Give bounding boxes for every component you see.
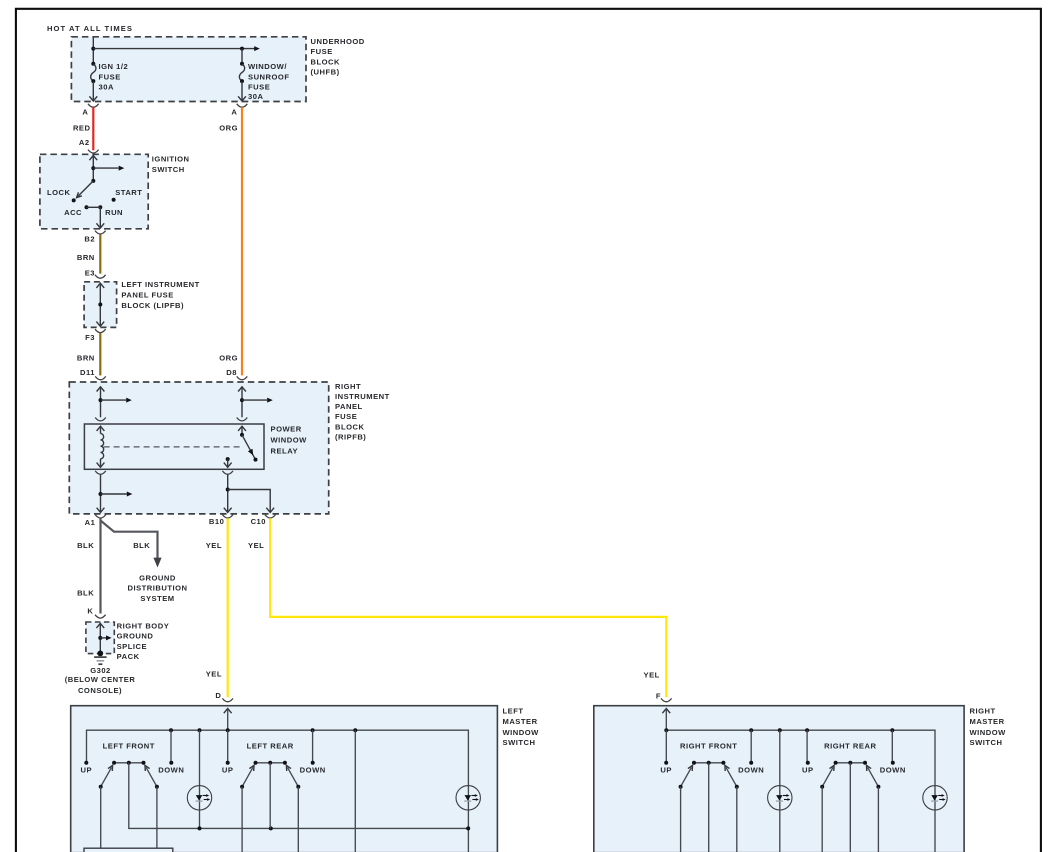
node bus right rear down tap: [890, 728, 894, 732]
svg-text:FUSE: FUSE: [99, 73, 121, 82]
wire RIPFB right branch arrow: [242, 399, 267, 401]
svg-text:WINDOW/: WINDOW/: [248, 62, 287, 71]
node bus D junction: [226, 728, 230, 732]
wire left front down drop: [170, 730, 172, 763]
svg-text:UP: UP: [660, 766, 672, 775]
svg-text:HOT AT ALL TIMES: HOT AT ALL TIMES: [47, 24, 133, 33]
left motor connector box: [84, 848, 173, 852]
window switch LEFT FRONT contacts: [114, 762, 143, 764]
svg-text:SWITCH: SWITCH: [152, 165, 185, 174]
contact ACC: [85, 205, 89, 209]
svg-text:GROUND: GROUND: [139, 573, 176, 582]
wire ACC to RUN: [87, 206, 101, 208]
wire F input entry: [662, 709, 670, 714]
svg-text:BLOCK (LIPFB): BLOCK (LIPFB): [121, 301, 184, 310]
node switched output junction: [226, 488, 230, 492]
svg-text:(RIPFB): (RIPFB): [335, 432, 366, 441]
connector terminal A right: [237, 104, 248, 107]
svg-text:SYSTEM: SYSTEM: [140, 594, 174, 603]
svg-text:30A: 30A: [99, 82, 114, 91]
connector terminal A1: [95, 515, 106, 518]
wire YEL C10 to F: [270, 518, 666, 697]
svg-text:LEFT REAR: LEFT REAR: [247, 742, 294, 751]
wire UHFB feed vertical: [92, 37, 94, 64]
relay contact to B10: [226, 457, 230, 461]
svg-text:DOWN: DOWN: [300, 766, 326, 775]
node bus output tap: [353, 728, 357, 732]
wire right rear up drop: [806, 730, 808, 763]
svg-text:SPLICE: SPLICE: [117, 642, 147, 651]
window switch RIGHT REAR UP arm: [822, 767, 833, 786]
svg-text:RUN: RUN: [105, 208, 123, 217]
svg-text:LEFT FRONT: LEFT FRONT: [103, 742, 155, 751]
wire left rear up pivot down: [241, 787, 243, 852]
svg-text:YEL: YEL: [206, 669, 222, 678]
wire RUN output: [99, 207, 101, 228]
wire left switch supply bus: [87, 730, 469, 852]
window switch RIGHT FRONT contacts: [694, 762, 723, 764]
connector arc relay coil top: [95, 418, 106, 421]
svg-text:B10: B10: [209, 517, 224, 526]
relay switch common: [238, 426, 246, 431]
svg-text:DISTRIBUTION: DISTRIBUTION: [128, 584, 188, 593]
underhood fuse block UHFB box: [71, 37, 306, 102]
svg-text:INSTRUMENT: INSTRUMENT: [335, 392, 390, 401]
node RIPFB left junction: [99, 398, 103, 402]
svg-text:PANEL: PANEL: [335, 402, 363, 411]
wire ORG fuse to RIPFB D8: [241, 107, 243, 375]
node bus left front down tap: [169, 728, 173, 732]
svg-text:WINDOW: WINDOW: [271, 435, 308, 444]
contact START: [112, 198, 116, 202]
svg-text:UP: UP: [222, 766, 234, 775]
svg-text:FUSE: FUSE: [335, 412, 357, 421]
window switch RIGHT FRONT UP arm: [681, 767, 692, 786]
svg-text:C10: C10: [251, 517, 266, 526]
svg-text:E3: E3: [85, 269, 95, 278]
svg-text:BLK: BLK: [77, 541, 94, 550]
svg-text:ORG: ORG: [219, 353, 238, 362]
svg-text:LOCK: LOCK: [47, 188, 71, 197]
node coil return junction: [99, 492, 103, 496]
wire YEL B10 to D: [227, 518, 229, 697]
connector terminal F3: [95, 329, 106, 332]
svg-text:RIGHT: RIGHT: [970, 707, 996, 716]
connector arc D8: [237, 376, 248, 379]
svg-text:MASTER: MASTER: [970, 717, 1005, 726]
node ignition rotor pivot: [91, 179, 95, 183]
wire left front common down: [129, 763, 468, 829]
svg-text:RIGHT FRONT: RIGHT FRONT: [680, 742, 737, 751]
window switch LEFT FRONT DOWN arm: [146, 767, 157, 786]
wire RIPFB switched output: [227, 474, 229, 512]
window switch LEFT REAR contacts: [256, 762, 285, 764]
svg-text:(BELOW CENTER: (BELOW CENTER: [65, 675, 136, 684]
svg-text:(UHFB): (UHFB): [311, 68, 340, 77]
node bus F junction: [664, 728, 668, 732]
wire output drop long: [354, 730, 356, 852]
right instrument panel fuse block RIPFB box: [69, 382, 328, 514]
svg-text:UP: UP: [81, 766, 93, 775]
svg-text:RIGHT REAR: RIGHT REAR: [824, 742, 876, 751]
svg-text:F: F: [656, 692, 661, 701]
connector terminal B2: [95, 231, 106, 234]
svg-text:BLK: BLK: [133, 541, 150, 550]
svg-text:RELAY: RELAY: [271, 446, 299, 455]
svg-text:BLK: BLK: [77, 589, 94, 598]
relay switch arm: [242, 435, 256, 460]
ignition rotor arm toward LOCK: [78, 181, 94, 197]
window switch LEFT REAR DOWN arm: [288, 767, 299, 786]
svg-text:A: A: [231, 108, 237, 117]
svg-text:YEL: YEL: [206, 541, 222, 550]
svg-text:WINDOW: WINDOW: [970, 728, 1007, 737]
connector arc D11: [95, 376, 106, 379]
svg-text:POWER: POWER: [271, 424, 302, 433]
svg-text:SWITCH: SWITCH: [503, 738, 536, 747]
LED illumination right switch: [768, 786, 792, 810]
node bus tap to window fuse: [240, 47, 244, 51]
svg-text:DOWN: DOWN: [738, 766, 764, 775]
svg-text:A: A: [82, 108, 88, 117]
wire BLK A1 to K: [99, 518, 101, 613]
svg-text:FUSE: FUSE: [311, 47, 333, 56]
wire ignition branch arrow: [93, 167, 118, 169]
wire led1 drop: [199, 730, 201, 828]
node lower bus left rear common: [269, 826, 273, 830]
wire branch to C10: [228, 490, 271, 513]
svg-text:YEL: YEL: [644, 671, 660, 680]
svg-text:LEFT: LEFT: [503, 707, 524, 716]
svg-text:SWITCH: SWITCH: [970, 738, 1003, 747]
node bus led1 tap: [198, 728, 202, 732]
wire RIPFB left entry: [97, 387, 105, 392]
wire ignition input: [89, 156, 97, 161]
wire BLK branch to ground distribution: [101, 521, 158, 559]
window switch LEFT FRONT UP arm: [101, 767, 112, 786]
wire left rear down drop: [312, 730, 314, 763]
ground G302: [97, 651, 103, 657]
svg-text:RIGHT BODY: RIGHT BODY: [117, 621, 170, 630]
wire right rear down pivot down: [877, 787, 879, 852]
svg-text:K: K: [87, 607, 93, 616]
wire right rear down drop: [891, 730, 893, 763]
wire coil return branch arrow: [101, 493, 127, 495]
connector arc relay switch bottom: [222, 471, 233, 474]
node bus right rear up tap: [805, 728, 809, 732]
relay coil: [97, 426, 105, 431]
node LIPFB splice: [98, 303, 102, 307]
wire right front down pivot down: [736, 787, 738, 852]
svg-text:YEL: YEL: [248, 541, 264, 550]
svg-text:A1: A1: [85, 518, 96, 527]
svg-text:D11: D11: [80, 368, 95, 377]
wire right front up drop: [665, 730, 667, 763]
window switch RIGHT FRONT DOWN arm: [726, 767, 737, 786]
svg-text:CONSOLE): CONSOLE): [78, 686, 122, 695]
contact LOCK: [72, 198, 76, 202]
wire splice branch arrow: [100, 637, 106, 639]
svg-text:ACC: ACC: [64, 208, 82, 217]
svg-text:RIGHT: RIGHT: [335, 382, 361, 391]
svg-text:START: START: [115, 188, 142, 197]
svg-text:G302: G302: [90, 666, 111, 675]
svg-text:UNDERHOOD: UNDERHOOD: [311, 37, 365, 46]
node splice junction: [98, 636, 102, 640]
svg-text:IGN 1/2: IGN 1/2: [99, 62, 129, 71]
relay actuation dashed link: [104, 446, 244, 448]
node bus left rear down tap: [311, 728, 315, 732]
node bus led3 tap: [778, 728, 782, 732]
right master window switch box: [594, 706, 964, 852]
wire splice pack internal: [96, 623, 104, 628]
wire led3 drop: [779, 730, 781, 852]
svg-text:UP: UP: [802, 766, 814, 775]
wire RIPFB coil return: [100, 474, 102, 512]
wire D input entry: [224, 709, 232, 714]
svg-text:D: D: [215, 691, 221, 700]
svg-text:DOWN: DOWN: [158, 766, 184, 775]
node UHFB bus junction: [91, 47, 95, 51]
wire left rear up drop: [227, 730, 229, 763]
svg-text:PANEL FUSE: PANEL FUSE: [121, 291, 173, 300]
svg-text:B2: B2: [84, 234, 95, 243]
wire left front up pivot down: [100, 787, 102, 849]
wire right front down drop: [750, 730, 752, 763]
wire right front common down: [708, 763, 710, 852]
svg-text:DOWN: DOWN: [880, 766, 906, 775]
svg-text:BRN: BRN: [77, 253, 95, 262]
right body ground splice pack box: [86, 622, 114, 654]
svg-text:ORG: ORG: [219, 124, 238, 133]
svg-text:WINDOW: WINDOW: [503, 728, 540, 737]
svg-text:MASTER: MASTER: [503, 717, 538, 726]
node lower bus right end: [466, 826, 470, 830]
connector arc relay switch top: [237, 418, 248, 421]
svg-text:FUSE: FUSE: [248, 82, 270, 91]
fuse WINDOW/SUNROOF FUSE 30A: [241, 49, 243, 64]
wire RIPFB left branch arrow: [101, 399, 127, 401]
ignition switch box: [40, 154, 148, 229]
wire left rear down pivot down: [297, 787, 299, 852]
node RIPFB right junction: [240, 398, 244, 402]
wire right front up pivot down: [680, 787, 682, 852]
LED illumination left switch 2: [456, 786, 480, 810]
node lower bus led1: [198, 826, 202, 830]
LED illumination left switch: [187, 786, 211, 810]
wire right rear common down: [849, 763, 851, 852]
wire BRN F3 to D11: [99, 333, 101, 376]
svg-text:D8: D8: [226, 368, 237, 377]
left instrument panel fuse block LIPFB box: [84, 282, 117, 328]
relay contact open: [254, 458, 258, 462]
connector arc relay coil bottom: [95, 471, 106, 474]
svg-text:LEFT INSTRUMENT: LEFT INSTRUMENT: [121, 280, 199, 289]
node ignition feed junction: [91, 166, 95, 170]
svg-text:A2: A2: [79, 138, 90, 147]
connector terminal B10: [222, 515, 233, 518]
connector terminal C10: [265, 515, 276, 518]
wire right rear up pivot down: [821, 787, 823, 852]
wire LIPFB internal: [96, 283, 104, 288]
contact RUN: [98, 205, 102, 209]
node bus right front down tap: [749, 728, 753, 732]
svg-text:BLOCK: BLOCK: [335, 422, 365, 431]
svg-text:PACK: PACK: [117, 652, 140, 661]
wire left front down pivot down: [156, 787, 158, 849]
svg-text:30A: 30A: [248, 92, 263, 101]
wire UHFB internal bus: [93, 48, 255, 50]
svg-text:RED: RED: [73, 124, 91, 133]
svg-text:IGNITION: IGNITION: [152, 155, 190, 164]
wire right switch supply bus: [666, 730, 935, 852]
window switch RIGHT REAR DOWN arm: [868, 767, 879, 786]
left master window switch box: [71, 706, 498, 852]
wire BRN B2 to E3: [99, 234, 101, 273]
wire RIPFB right entry: [238, 387, 246, 392]
fuse IGN 1/2 FUSE 30A: [91, 62, 95, 66]
svg-text:BRN: BRN: [77, 353, 95, 362]
wire left rear common down: [269, 763, 271, 829]
svg-text:SUNROOF: SUNROOF: [248, 73, 289, 82]
window switch LEFT REAR UP arm: [242, 767, 253, 786]
window switch RIGHT REAR contacts: [836, 762, 865, 764]
wire RED fuse to ignition switch: [92, 107, 94, 150]
svg-text:GROUND: GROUND: [117, 632, 154, 641]
svg-text:BLOCK: BLOCK: [311, 57, 341, 66]
connector terminal A left: [88, 104, 99, 107]
LED illumination right switch 2: [923, 786, 947, 810]
svg-text:F3: F3: [85, 333, 95, 342]
power window relay box: [84, 424, 264, 469]
